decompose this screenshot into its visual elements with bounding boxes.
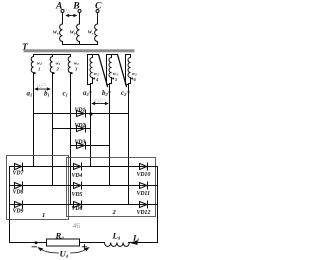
svg-text:w2: w2 <box>74 61 79 67</box>
terminal A <box>61 10 64 13</box>
inductor Ld <box>105 243 130 247</box>
svg-text:46: 46 <box>73 221 81 230</box>
svg-text:VD11: VD11 <box>137 191 151 197</box>
voltage Ud arrow right <box>71 249 88 253</box>
secondary winding a1 coil <box>31 57 33 73</box>
zigzag group 1 top segment <box>88 54 99 56</box>
diode VD12 <box>140 201 148 208</box>
zigzag diagonal 1 <box>99 55 108 87</box>
secondary winding b1 coil <box>50 57 52 73</box>
wire row bottom 1 <box>10 166 158 168</box>
wire a1 down <box>33 73 35 167</box>
group box 1 <box>7 156 69 220</box>
diode VD3 <box>77 142 86 149</box>
diode VD2 <box>77 125 86 132</box>
terminal B <box>78 10 81 13</box>
wire Rd to Ld <box>80 242 105 244</box>
primary winding C coil <box>95 24 98 42</box>
wire row VD2 <box>53 128 91 130</box>
svg-text:wc: wc <box>88 30 94 36</box>
zigzag group 3 top segment <box>126 54 131 56</box>
junction dot b2 <box>109 91 111 93</box>
svg-text:wb: wb <box>70 30 76 36</box>
voltage Ud arrow left <box>40 249 59 253</box>
zigzag winding a2 coil <box>90 55 93 84</box>
voltage arrow between A and B <box>65 14 77 17</box>
svg-text:VD5: VD5 <box>72 192 83 198</box>
polarity dot winding c1 <box>71 72 73 74</box>
zigzag diagonal 2 <box>118 55 127 87</box>
polarity dot winding a1 <box>34 72 36 74</box>
group box 2 <box>67 158 156 217</box>
svg-text:w2: w2 <box>37 61 42 67</box>
zigzag group 2 left riser <box>107 55 110 85</box>
wire C down <box>97 13 99 24</box>
junction dot row VD1 <box>89 112 92 115</box>
polarity dot winding b2 <box>112 78 114 80</box>
junction dot a2 <box>90 91 92 93</box>
junction dot Ud tap <box>35 241 38 244</box>
wire row bottom 3 <box>10 204 158 206</box>
diode VD4 <box>74 163 82 170</box>
svg-text:VD10: VD10 <box>137 172 151 178</box>
voltage arrow a1-b1 <box>34 87 51 90</box>
svg-text:VD7: VD7 <box>13 170 25 176</box>
polarity dot winding b1 <box>53 72 55 74</box>
svg-text:VD9: VD9 <box>13 208 24 214</box>
junction dot c2 <box>128 91 130 93</box>
svg-text:VD6: VD6 <box>72 206 83 212</box>
diode VD7 <box>15 163 23 170</box>
wire row VD1 <box>34 113 129 115</box>
plus sign <box>82 245 86 249</box>
wire b1 down <box>52 73 54 186</box>
wire A down <box>62 13 64 24</box>
diode VD6 <box>74 201 82 208</box>
wire row bottom 2 <box>10 185 158 187</box>
polarity dot winding a2 <box>93 78 95 80</box>
wire row VD3 <box>71 145 110 147</box>
diode VD9 <box>15 201 23 208</box>
primary winding B coil <box>77 24 80 42</box>
wire c1 down <box>70 73 72 205</box>
minus sign <box>32 246 37 248</box>
svg-text:VD4: VD4 <box>72 173 83 179</box>
transformer core <box>24 49 135 52</box>
zigzag group 1 left riser <box>88 55 91 85</box>
secondary winding c1 coil <box>68 57 70 73</box>
terminal C <box>96 10 99 13</box>
svg-text:1: 1 <box>38 67 40 72</box>
primary star bus wire <box>63 42 98 45</box>
diode VD8 <box>15 182 23 189</box>
primary winding A coil <box>60 24 63 42</box>
svg-text:w2: w2 <box>113 71 118 77</box>
svg-text:VD12: VD12 <box>137 210 151 216</box>
zigzag winding b2 coil <box>109 55 112 84</box>
wire c2 down <box>128 84 130 205</box>
zigzag group 3 left riser <box>126 55 129 85</box>
voltage arrow a2-b2 <box>91 102 109 105</box>
svg-text:wa: wa <box>53 30 59 36</box>
svg-text:w2: w2 <box>56 61 61 67</box>
diode VD11 <box>140 182 148 189</box>
zigzag winding c2 coil <box>128 55 131 84</box>
resistor Rd <box>47 239 80 246</box>
secondary star neutral bus <box>34 55 71 57</box>
diode VD5 <box>74 182 82 189</box>
svg-text:w2: w2 <box>94 71 99 77</box>
current Id arrow <box>129 240 137 245</box>
polarity dot winding c2 <box>131 78 133 80</box>
svg-text:1: 1 <box>42 212 45 219</box>
diode VD1 <box>77 110 86 117</box>
positive bus wire right <box>129 167 158 243</box>
zigzag group 2 top segment <box>107 54 118 56</box>
wire B down <box>79 13 81 24</box>
negative bus wire left <box>10 167 47 243</box>
wire a2 down <box>90 84 92 167</box>
wire b2 down <box>109 84 111 186</box>
diode VD10 <box>140 163 148 170</box>
svg-text:w2: w2 <box>132 71 137 77</box>
svg-text:VD8: VD8 <box>13 189 24 195</box>
